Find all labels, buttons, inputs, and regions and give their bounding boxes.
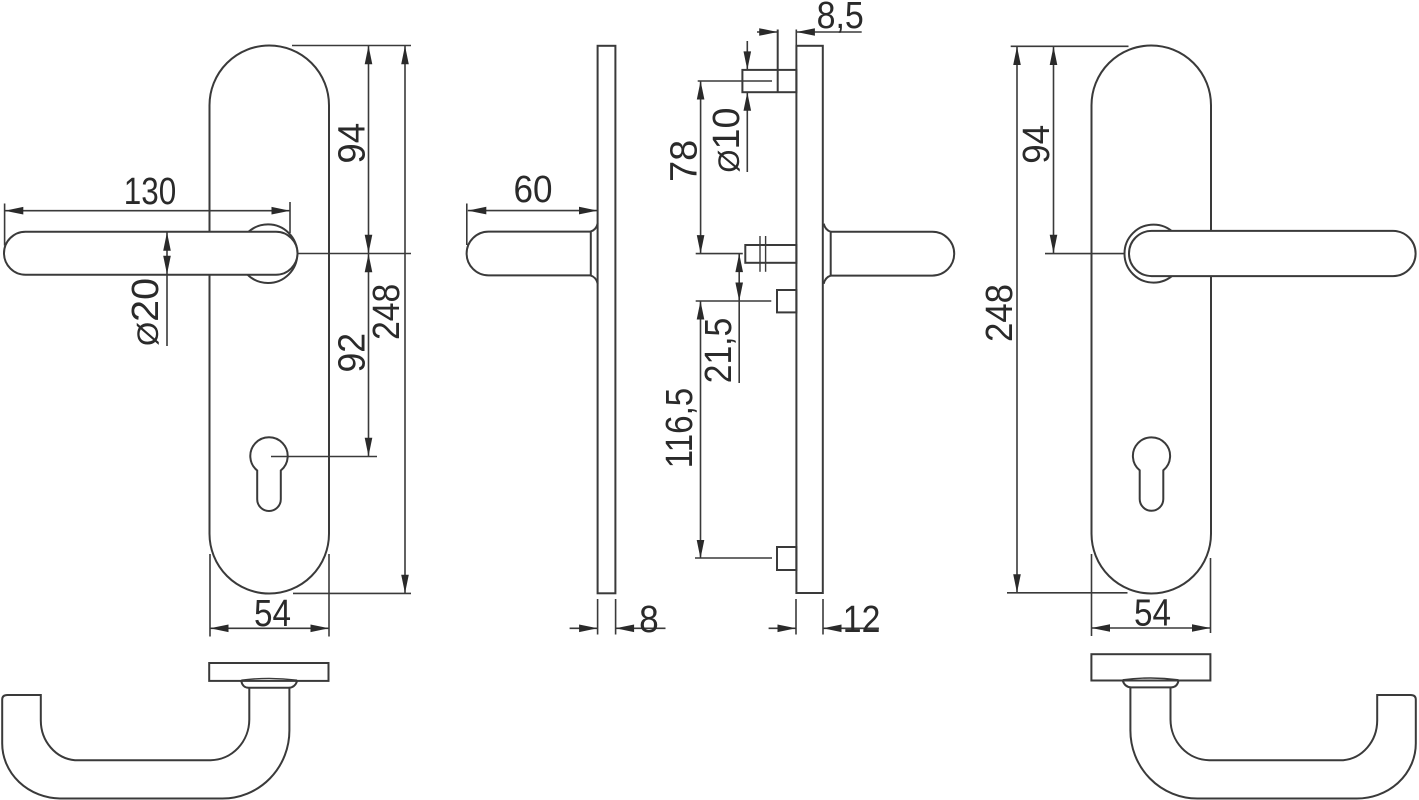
right lever handle (front view) [1129, 231, 1416, 276]
side-view backplate [598, 46, 616, 594]
dimension 248 (right) [1016, 46, 1018, 593]
dimension 94 (left, top to handle centre) [368, 46, 370, 254]
left backplate (front view) [210, 46, 330, 594]
side-view handle [467, 232, 591, 276]
left rosette plate (edge view) [209, 663, 328, 681]
svg-text:Ø20: Ø20 [125, 278, 167, 346]
dimension 130 (handle length) [4, 204, 6, 246]
dimension 60 (handle projection) [466, 204, 468, 246]
dimension 92 (handle centre to keyhole) [368, 254, 370, 456]
dimension Ø10 (boss diameter) [746, 41, 748, 70]
svg-text:94: 94 [1016, 125, 1058, 164]
left euro-profile keyhole [250, 437, 287, 511]
right handle grip (top view) [1130, 688, 1415, 799]
dimension 116,5 (upper to lower boss) [696, 300, 772, 302]
svg-text:248: 248 [366, 284, 408, 340]
dimension 94 (right) [1053, 46, 1055, 253]
dimension 54 (left plate width) [209, 554, 211, 637]
svg-text:8,5: 8,5 [817, 0, 864, 37]
section backplate [796, 46, 822, 593]
left handle grip (top view) [2, 688, 289, 799]
right rosette plate (edge view) [1091, 654, 1210, 680]
dimension 54 (right) [1091, 554, 1093, 636]
lower fixing boss [777, 547, 796, 570]
svg-text:12: 12 [843, 599, 881, 641]
right backplate (front view) [1092, 46, 1212, 594]
svg-text:21,5: 21,5 [698, 318, 740, 384]
top fixing screw boss [742, 70, 796, 92]
dimension 21,5 (spindle to upper boss) [738, 254, 740, 383]
section-view handle [831, 232, 954, 276]
screw end face line [777, 30, 779, 93]
svg-text:8: 8 [639, 599, 659, 641]
svg-text:130: 130 [124, 171, 177, 213]
svg-text:Ø10: Ø10 [706, 108, 748, 173]
spindle (8mm square) [745, 245, 796, 263]
extension lines left figure [292, 45, 411, 47]
dimension 8 (plate thickness) [597, 599, 599, 635]
svg-text:116,5: 116,5 [659, 388, 701, 468]
right handle collar circle [1125, 225, 1183, 283]
svg-text:248: 248 [979, 284, 1021, 342]
svg-text:60: 60 [514, 169, 553, 211]
right handle neck flare [1123, 678, 1179, 680]
left lever handle (front view) [4, 232, 298, 275]
dimension 8,5 (boss protrusion) [795, 30, 797, 46]
dimension 78 (boss to spindle centre) [698, 80, 772, 82]
svg-text:78: 78 [663, 140, 705, 182]
spindle break marks [759, 236, 761, 272]
extension lines right figure [1011, 45, 1129, 47]
left handle neck flare [241, 678, 297, 680]
svg-text:94: 94 [332, 123, 374, 164]
dimension 248 (left plate height) [404, 46, 406, 594]
left handle collar circle [239, 224, 298, 283]
svg-text:54: 54 [1134, 593, 1171, 635]
dimension 12 (security plate thickness) [795, 599, 797, 635]
upper fixing boss [777, 290, 796, 312]
right euro-profile keyhole [1133, 437, 1170, 510]
svg-text:54: 54 [254, 593, 291, 635]
dimension Ø20 (handle diameter) [166, 232, 168, 275]
